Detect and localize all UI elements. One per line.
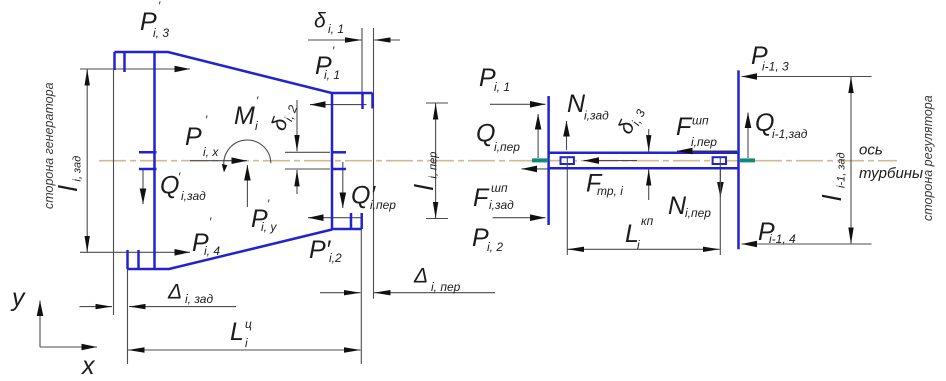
svg-text:i,зад: i,зад — [181, 189, 206, 203]
svg-text:Δ: Δ — [413, 265, 428, 288]
svg-text:i: i — [245, 336, 248, 350]
svg-text:шп: шп — [491, 181, 508, 195]
svg-text:кп: кп — [641, 214, 654, 228]
svg-text:i, зад: i, зад — [185, 292, 213, 306]
svg-text:Q: Q — [160, 172, 179, 200]
svg-text:тр, i: тр, i — [597, 184, 623, 198]
svg-text:y: y — [10, 284, 26, 312]
svg-text:шп: шп — [692, 113, 709, 127]
svg-text:x: x — [81, 352, 96, 376]
svg-text:i, 1: i, 1 — [328, 22, 344, 36]
svg-text:P: P — [185, 123, 202, 151]
svg-text:i-1, 3: i-1, 3 — [762, 60, 789, 74]
svg-text:i, y: i, y — [261, 220, 277, 234]
svg-text:δ: δ — [314, 10, 326, 33]
svg-text:i, x: i, x — [203, 145, 219, 159]
svg-text:ось: ось — [859, 142, 883, 159]
svg-text:Δ: Δ — [167, 281, 182, 304]
svg-text:i, 4: i, 4 — [204, 244, 220, 258]
svg-text:i,пер: i,пер — [685, 206, 711, 220]
svg-text:i,пер: i,пер — [494, 140, 520, 154]
svg-text:i, 1: i, 1 — [494, 80, 510, 94]
svg-text:i,зад: i,зад — [489, 198, 514, 212]
svg-text:i: i — [637, 238, 640, 252]
svg-text:i, 3: i, 3 — [153, 26, 169, 40]
svg-text:ц: ц — [245, 317, 252, 331]
svg-text:сторона генератора: сторона генератора — [42, 82, 56, 209]
svg-text:i, зад: i, зад — [72, 156, 84, 182]
svg-text:L: L — [230, 318, 244, 346]
svg-text:Q: Q — [476, 119, 495, 147]
svg-text:i,пер: i,пер — [691, 135, 717, 149]
svg-text:i, 2: i, 2 — [487, 240, 503, 254]
svg-text:i-1, 4: i-1, 4 — [769, 232, 796, 246]
svg-text:i,зад: i,зад — [584, 109, 609, 123]
svg-text:i: i — [255, 119, 258, 133]
svg-text:i,пер: i,пер — [370, 198, 396, 212]
svg-text:i,2: i,2 — [329, 251, 342, 265]
svg-text:F: F — [473, 184, 490, 212]
svg-text:i, пер: i, пер — [431, 280, 461, 294]
svg-text:M: M — [234, 102, 255, 130]
svg-text:i-1, зад: i-1, зад — [836, 152, 848, 188]
svg-text:турбины: турбины — [859, 165, 923, 182]
svg-text:i, пер: i, пер — [428, 152, 440, 179]
svg-text:i, 1: i, 1 — [324, 68, 340, 82]
svg-text:i-1,зад: i-1,зад — [772, 127, 808, 141]
svg-text:сторона регулятора: сторона регулятора — [921, 95, 935, 221]
